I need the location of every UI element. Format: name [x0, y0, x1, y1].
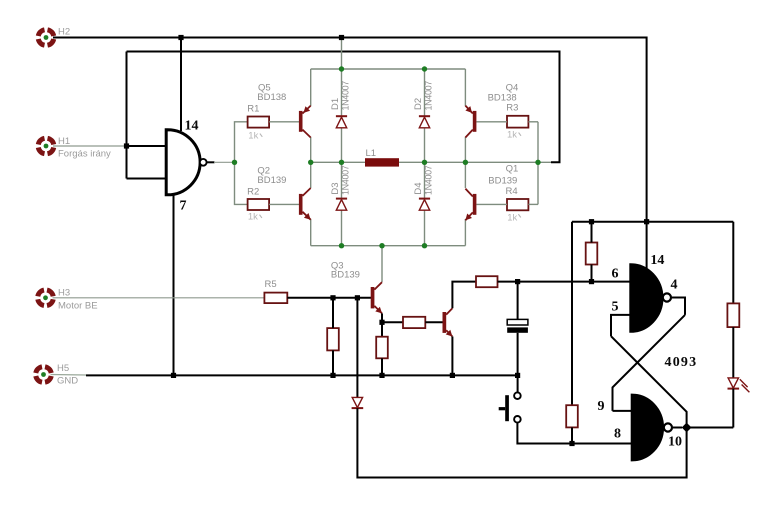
diode D5	[352, 397, 364, 408]
svg-text:D3: D3	[330, 182, 341, 194]
connector H3	[38, 290, 53, 305]
wire crossover pin4 to pin9	[613, 315, 686, 411]
junction R11 pin6 line	[589, 279, 594, 284]
junction R6 GND	[330, 373, 335, 378]
svg-text:1k: 1k	[248, 211, 258, 222]
wire R11 top lead	[591, 222, 593, 243]
junction bottom rail D3	[339, 243, 344, 248]
junction mid rail D1/D3	[339, 160, 344, 165]
wire D3 bottom	[341, 210, 343, 245]
svg-text:BD138: BD138	[488, 92, 517, 103]
junction H1 gate input node	[124, 143, 129, 148]
wire R6 to GND rail	[332, 350, 334, 375]
wire crossover pin5 to node10	[611, 336, 687, 427]
wire U2 pin5 stub	[611, 315, 631, 336]
wire R6 top lead	[332, 298, 334, 328]
svg-text:GND: GND	[57, 376, 78, 387]
junction top rail D1	[339, 66, 344, 71]
svg-text:D1: D1	[330, 98, 341, 110]
svg-text:14: 14	[650, 253, 664, 268]
svg-text:H1: H1	[58, 136, 70, 147]
wire R10 to pin8 node	[571, 427, 573, 443]
wire gate U1 input 2 stub	[127, 178, 167, 180]
wire Q5 emitter to top rail	[310, 69, 312, 106]
svg-text:4093: 4093	[665, 355, 698, 370]
wire C1 to GND rail	[517, 333, 519, 376]
resistor R9	[476, 276, 498, 287]
svg-text:BD139: BD139	[331, 270, 360, 281]
diode D2	[419, 116, 430, 128]
junction R10 bottom	[569, 441, 574, 446]
junction mid rail Q5/Q2	[308, 160, 313, 165]
wire feedback from gate inputs to H-bridge right node	[127, 52, 560, 163]
transistor Q4 BD138	[465, 106, 476, 138]
svg-text:4: 4	[671, 278, 678, 293]
wire Q1 emitter to bottom rail	[464, 219, 466, 246]
wire R3 to mid rail	[537, 122, 539, 163]
op-amp U2 NAND gate 4093B body filled	[631, 264, 663, 331]
svg-text:Motor BE: Motor BE	[58, 301, 98, 312]
svg-text:1N4007: 1N4007	[423, 165, 433, 195]
wire H-bridge bottom rail	[311, 245, 466, 247]
wire Q2 collector to mid rail	[310, 162, 312, 188]
junction R6 top	[330, 295, 335, 300]
wire D2 top	[424, 69, 426, 116]
transistor Q3 BD139	[371, 282, 382, 313]
wire R10 line top	[571, 222, 573, 406]
wire Q4 base to R3	[476, 121, 507, 123]
junction bottom rail Q3	[379, 243, 384, 248]
wire switch S1 top lead	[517, 375, 519, 392]
junction H2 rail pin14	[178, 35, 183, 40]
U3 output bubble pin 10	[664, 423, 672, 431]
transistor Q6	[443, 308, 453, 336]
transistor Q5 BD138	[299, 106, 311, 138]
svg-text:D4: D4	[413, 182, 424, 194]
wire R3 to mid rail corner	[528, 121, 538, 123]
wire cap node down to C1	[517, 282, 519, 320]
junction mid rail D2/D4	[422, 160, 427, 165]
resistor R8	[403, 317, 425, 328]
U2 output bubble pin 4	[663, 293, 671, 301]
wire Q3 emitter to R8	[382, 321, 403, 323]
svg-text:8: 8	[614, 427, 621, 442]
wire H3 to R5	[53, 297, 265, 299]
wire D4 top	[424, 162, 426, 198]
op-amp U1 NAND gate 4093A body	[166, 130, 200, 195]
junction C1 GND rail end	[515, 373, 520, 378]
wire U3 pin9 stub	[613, 410, 633, 412]
junction bottom rail D4	[422, 243, 427, 248]
svg-text:L1: L1	[366, 148, 377, 159]
wire H5 pad stub	[51, 374, 87, 377]
wire pin 14 of U1 from H2 rail	[180, 38, 182, 132]
op-amp U3 NAND gate 4093C body filled	[632, 395, 663, 460]
wire Q6 collector up to R9	[452, 282, 476, 309]
wire R1 to Q5 base	[269, 121, 299, 123]
wire gate output to R1 and R2	[235, 122, 248, 205]
junction Q3 emitter node	[379, 320, 384, 325]
wire Q5 collector to mid rail	[310, 137, 312, 162]
svg-text:H3: H3	[58, 288, 70, 299]
wire R2 to Q2 base	[269, 203, 299, 205]
wire U2 output pin4	[671, 298, 685, 315]
transistor Q2 BD139	[299, 188, 311, 220]
wire H2 pad stub	[53, 37, 58, 39]
svg-text:R2: R2	[247, 186, 259, 197]
wire R11 bottom lead	[591, 265, 593, 282]
svg-text:1k: 1k	[507, 213, 517, 224]
svg-text:6: 6	[612, 267, 619, 282]
resistor R12	[727, 303, 739, 327]
svg-text:Forgás irány: Forgás irány	[58, 149, 111, 160]
svg-text:R3: R3	[506, 103, 518, 114]
svg-text:5: 5	[612, 300, 619, 315]
svg-text:1N4007: 1N4007	[340, 81, 350, 111]
wire H2 drop to H-bridge top rail	[341, 38, 343, 70]
wire H1 to gate inputs	[53, 145, 127, 147]
svg-text:BD139: BD139	[257, 175, 286, 186]
svg-text:Q1: Q1	[506, 163, 519, 174]
junction R7 GND	[379, 373, 384, 378]
wire switch S1 bottom to pin 8 line	[517, 423, 632, 444]
wire U3 output stub	[672, 427, 682, 429]
wire Q1 collector to mid rail	[464, 162, 466, 188]
svg-text:7: 7	[180, 199, 187, 214]
resistor R7	[376, 337, 388, 359]
resistor R11	[586, 243, 598, 265]
wire D1 top	[341, 69, 343, 116]
wire R8 to Q6 base	[425, 321, 442, 323]
wire gate U1 input 1 stub	[127, 145, 167, 147]
wire Q3 emitter down	[381, 313, 383, 336]
junction cap node	[515, 279, 520, 284]
svg-text:10: 10	[668, 435, 682, 450]
wire pin 7 of U1 to GND rail	[173, 194, 175, 375]
resistor R4	[507, 199, 528, 210]
wire R12 to LED	[732, 327, 734, 378]
svg-text:H2: H2	[58, 27, 70, 38]
svg-text:9: 9	[598, 399, 605, 414]
wire GND rail from H5	[86, 374, 517, 376]
wire Q4 emitter to top rail	[464, 69, 466, 106]
wire R7 to GND rail	[381, 358, 383, 375]
wire oscillator top rail	[572, 221, 733, 223]
svg-text:1N4007: 1N4007	[340, 165, 350, 195]
resistor R10	[566, 405, 578, 427]
wire gate U1 input bus vertical	[126, 52, 128, 179]
junction mid rail R3/R4	[535, 160, 540, 165]
wire U1 output stub	[207, 161, 215, 163]
wire D3 top	[341, 162, 343, 198]
svg-text:BD138: BD138	[257, 92, 286, 103]
node output 10 diamond	[682, 423, 692, 433]
connector H5	[36, 367, 51, 382]
wire LED to node10 line	[732, 389, 734, 428]
junction Q6 emitter GND	[450, 373, 455, 378]
diode D4	[419, 199, 430, 211]
diode D3	[336, 199, 347, 211]
svg-text:1k: 1k	[248, 130, 258, 141]
wire R5 to Q3 base	[287, 297, 371, 299]
svg-text:R4: R4	[506, 186, 518, 197]
switch S1	[499, 392, 521, 422]
svg-text:14: 14	[185, 119, 199, 134]
wire H-bridge mid rail left half	[311, 161, 366, 163]
junction top rail R11	[589, 219, 594, 224]
wire Q1 base to R4	[476, 203, 507, 205]
svg-text:R1: R1	[247, 104, 259, 115]
resistor R3	[507, 116, 528, 128]
connector H1	[38, 138, 53, 153]
junction top rail pin14 U2	[644, 219, 649, 224]
svg-text:BD139: BD139	[488, 176, 517, 187]
U1 output bubble	[200, 159, 207, 166]
inductor L1	[365, 158, 399, 166]
wire R4 to mid rail	[537, 162, 539, 204]
wire Q4 collector to mid rail	[464, 137, 466, 162]
svg-text:1N4007: 1N4007	[423, 81, 433, 111]
connector H2	[38, 30, 53, 45]
wire node10 to LED branch	[687, 427, 734, 429]
wire D5 vertical from base node	[356, 298, 358, 398]
diode D1	[336, 116, 347, 128]
wire Q3 collector to bottom rail	[381, 246, 383, 282]
svg-text:R5: R5	[265, 279, 277, 290]
wire D4 bottom	[424, 210, 426, 245]
wire U1 output gray segment to junction	[214, 161, 235, 163]
svg-text:H5: H5	[57, 363, 69, 374]
junction top rail D2	[422, 66, 427, 71]
wire D2 bottom	[424, 128, 426, 162]
LED D6	[728, 378, 750, 392]
resistor R1	[248, 117, 270, 128]
svg-text:D2: D2	[413, 98, 424, 110]
resistor R2	[248, 199, 270, 210]
junction H2 rail H-bridge drop	[339, 35, 344, 40]
wire Q2 emitter to bottom rail	[310, 219, 312, 246]
capacitor C1	[507, 319, 528, 332]
junction mid rail Q4/Q1	[463, 160, 468, 165]
wire R4 to mid rail corner	[528, 203, 538, 205]
wire Q6 emitter to GND rail	[451, 337, 453, 376]
wire H-bridge top rail	[311, 68, 466, 70]
svg-text:1k: 1k	[507, 129, 517, 140]
wire H2 to top-right corner down to oscillator rail	[54, 38, 647, 271]
junction D5 top	[355, 295, 360, 300]
junction GND rail pin7	[171, 373, 176, 378]
wire R9 to gate U2 pin 6	[498, 281, 631, 283]
transistor Q1 BD139	[465, 189, 476, 221]
wire H-bridge mid rail right half	[399, 161, 551, 163]
junction gate output node	[232, 160, 237, 165]
wire D1 bottom	[341, 128, 343, 162]
wire LED branch vertical top	[732, 222, 734, 304]
resistor R6	[327, 328, 339, 350]
resistor R5	[264, 293, 287, 304]
wire D5 to bottom return to node 10	[357, 408, 686, 477]
